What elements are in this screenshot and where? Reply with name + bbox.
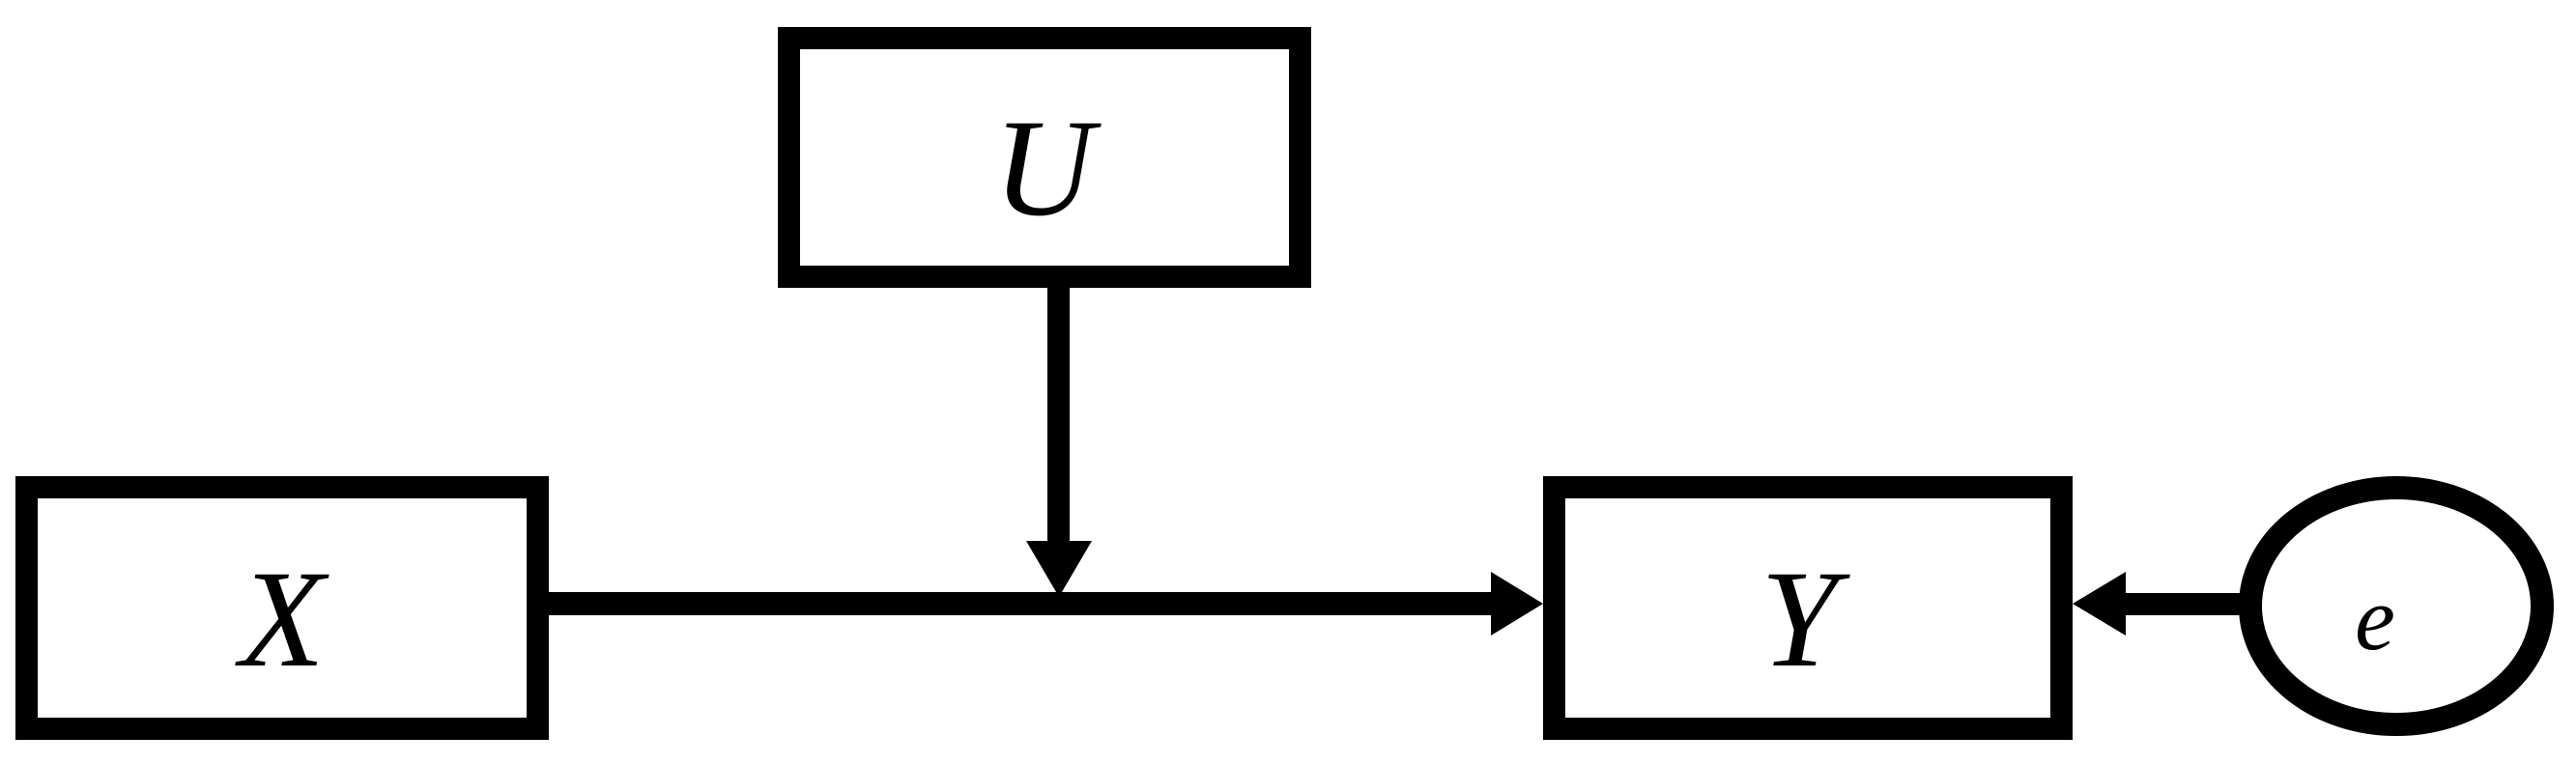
wire: arrow X to Y shaft: [549, 592, 1494, 615]
box Y: [1555, 488, 2062, 729]
box X: [27, 488, 538, 729]
wire: arrow e to Y shaft: [2124, 593, 2242, 615]
ellipse e: [2250, 488, 2542, 724]
wire: arrow U down shaft: [1047, 287, 1070, 544]
svg-text:e: e: [2355, 569, 2395, 669]
arrowhead X to Y: [1491, 572, 1543, 636]
box U: [789, 39, 1301, 277]
svg-text:X: X: [235, 543, 329, 696]
arrowhead U down: [1026, 541, 1092, 597]
svg-text:U: U: [993, 92, 1102, 245]
arrowhead e to Y: [2073, 572, 2126, 636]
svg-text:Y: Y: [1760, 543, 1850, 696]
